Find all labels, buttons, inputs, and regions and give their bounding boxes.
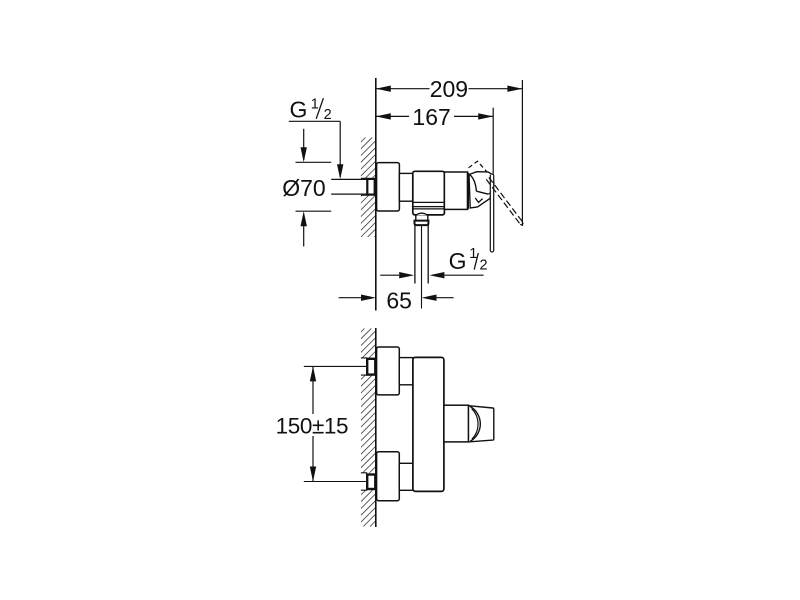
- right section right edge thick: [467, 173, 469, 209]
- dimension O70 extension lines: [296, 162, 332, 211]
- outlet shoulder arc: [415, 213, 428, 215]
- dimension 209 line: [376, 88, 523, 90]
- dome notch: [488, 191, 492, 194]
- dimension 65 arrow right: [422, 295, 437, 301]
- union nut 1: [367, 359, 375, 375]
- knob crescent inner: [472, 409, 478, 440]
- dimension 65 line left: [339, 297, 361, 299]
- svg-text:G: G: [290, 97, 308, 123]
- lever phantom tip cap: [520, 222, 523, 224]
- wall hatch band 3: [361, 490, 375, 526]
- label G 1/2 top underline: [289, 120, 340, 122]
- knob crescent outer: [470, 406, 481, 441]
- phantom handle outline (dashed): [469, 161, 488, 172]
- step cylinder: [399, 173, 412, 201]
- outlet collar: [414, 221, 428, 226]
- dome facet line: [476, 191, 488, 194]
- dimension 167 extension right: [492, 108, 494, 175]
- wall hatch band 2: [361, 375, 375, 473]
- dimension 150 arrows: [310, 366, 316, 481]
- wall hole edge lines: [361, 178, 367, 195]
- wall hole edges: [361, 358, 367, 490]
- union nut 2: [367, 475, 375, 490]
- label G 1/2 leader arrow: [337, 164, 343, 179]
- wall line: [375, 78, 377, 311]
- wall hatch lower band: [361, 195, 375, 237]
- dimension G 1/2 arrows (outlet thread): [380, 274, 399, 276]
- dimension 167 arrows: [376, 113, 493, 119]
- escutcheon 2 (front): [377, 452, 400, 501]
- svg-text:2: 2: [324, 107, 332, 123]
- label G 1/2 leader: [339, 121, 341, 177]
- outlet center line: [421, 226, 423, 309]
- wall line (front view): [375, 328, 377, 527]
- dimension 65 arrow left: [361, 295, 376, 301]
- svg-text:167: 167: [412, 104, 450, 130]
- handle dome: [469, 172, 494, 208]
- inlet nipple: [367, 179, 374, 195]
- dimension O70 bottom arrow: [301, 211, 307, 226]
- step 1: [399, 358, 413, 385]
- svg-text:150±15: 150±15: [276, 414, 349, 439]
- body (side): [413, 171, 445, 215]
- body (front): [413, 357, 444, 491]
- escutcheon (side): [377, 163, 400, 211]
- step 2: [399, 463, 413, 490]
- dimension 209 arrows: [376, 86, 523, 92]
- svg-text:65: 65: [386, 288, 412, 314]
- dimension 209 extension right: [521, 80, 523, 226]
- outlet nipple: [416, 216, 428, 221]
- lever rod phantom (dashed diagonal): [486, 177, 523, 224]
- inlet pipe: [331, 179, 367, 194]
- lever rod (vertical, solid): [490, 175, 493, 252]
- escutcheon 1 (front): [377, 347, 400, 395]
- dome V mark: [475, 198, 482, 202]
- svg-text:1: 1: [311, 97, 319, 113]
- right section: [444, 172, 467, 209]
- dimension 150 extension lines: [304, 366, 367, 481]
- handle base (front): [444, 405, 469, 442]
- wall hatch band 1: [361, 329, 375, 358]
- body rings: [413, 202, 444, 209]
- dome facet arc: [469, 174, 477, 191]
- svg-text:2: 2: [480, 258, 488, 274]
- handle knob (front): [469, 406, 494, 442]
- dimension O70 top arrow: [303, 129, 305, 160]
- wall hatch upper band: [361, 138, 375, 179]
- outlet pipe lines: [415, 225, 428, 283]
- dimension 167 line: [376, 115, 493, 117]
- svg-text:Ø70: Ø70: [282, 175, 325, 201]
- svg-text:209: 209: [430, 76, 468, 102]
- dimension 150 line: [312, 366, 314, 481]
- svg-text:G: G: [449, 248, 467, 274]
